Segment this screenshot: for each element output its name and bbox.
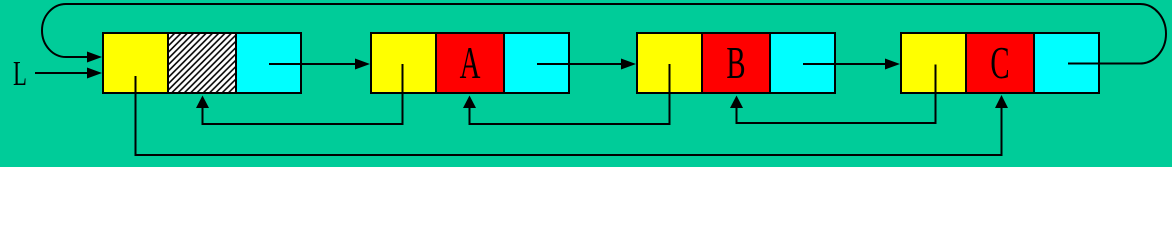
svg-text:C: C <box>990 39 1009 89</box>
wire: node3 next arrow to node4 <box>803 63 887 65</box>
wire: L pointer arrow <box>35 72 89 74</box>
wire: node3 prior pointer to node2 <box>470 64 670 124</box>
wire: node2 next arrow to node3 <box>537 63 623 65</box>
arrowhead of circular loop into node1 <box>87 52 102 63</box>
wire: circular next-pointer loop from node4.next around top to head <box>42 4 1166 64</box>
wire: node1 next arrow to node2 <box>269 63 357 65</box>
svg-text:A: A <box>460 39 481 89</box>
node 4 box <box>900 32 1100 94</box>
node 1 (head) box <box>102 32 302 94</box>
node 3 box <box>636 32 836 94</box>
wire: node4 prior pointer to node3 <box>737 65 936 124</box>
svg-text:B: B <box>726 39 745 89</box>
svg-text:L: L <box>13 55 27 93</box>
wire: node2 prior pointer to node1 <box>203 64 403 124</box>
wire: node1 prior pointer around bottom to node4 <box>136 76 1002 155</box>
node 2 box <box>370 32 570 94</box>
